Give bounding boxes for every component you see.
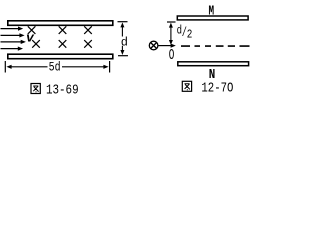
beam arrow 4	[1, 47, 24, 51]
capacitor bottom plate (fig 13-69)	[8, 54, 113, 59]
dimension 5d left tick	[4, 61, 6, 73]
caption glyph 图 (fig 12-70)	[182, 81, 191, 91]
beam arrow 3	[1, 40, 26, 44]
caption glyph 图 (fig 13-69)	[31, 84, 40, 94]
field cross symbol row1 a	[28, 26, 36, 34]
dimension d vertical double arrow	[120, 22, 124, 55]
dimension 5d left arrowhead	[6, 65, 11, 69]
dimension d top tick	[118, 21, 128, 23]
dimension d/2 top tick	[167, 21, 176, 23]
axis dashed line	[181, 45, 250, 47]
field cross symbol row2 a	[32, 40, 40, 48]
field cross symbol row2 c	[84, 40, 92, 48]
dimension 5d line left segment	[10, 66, 48, 68]
svg-text:O: O	[169, 47, 175, 64]
field into page symbol (circled cross)	[149, 41, 158, 50]
svg-text:12-7O: 12-7O	[201, 81, 233, 97]
field cross symbol row2 b	[59, 40, 67, 48]
field cross symbol row1 b	[59, 26, 67, 34]
velocity arrow from origin	[158, 44, 176, 48]
plate M (fig 12-70 top plate)	[177, 16, 248, 20]
beam arrow 2	[1, 33, 25, 37]
svg-text:5d: 5d	[49, 60, 61, 75]
svg-text:13-69: 13-69	[46, 83, 79, 99]
svg-text:2: 2	[187, 28, 193, 42]
dimension d bottom tick	[118, 55, 128, 57]
capacitor top plate (fig 13-69)	[8, 21, 113, 26]
plate N (fig 12-70 bottom plate)	[178, 62, 249, 66]
dimension 5d right arrowhead	[103, 65, 108, 69]
field cross symbol row1 c	[84, 26, 92, 34]
dimension d/2 vertical double arrow	[169, 23, 173, 45]
dimension 5d right tick	[109, 61, 111, 73]
dimension 5d line right segment	[62, 66, 105, 68]
beam arrow 1	[1, 27, 24, 31]
svg-text:d: d	[121, 35, 128, 49]
